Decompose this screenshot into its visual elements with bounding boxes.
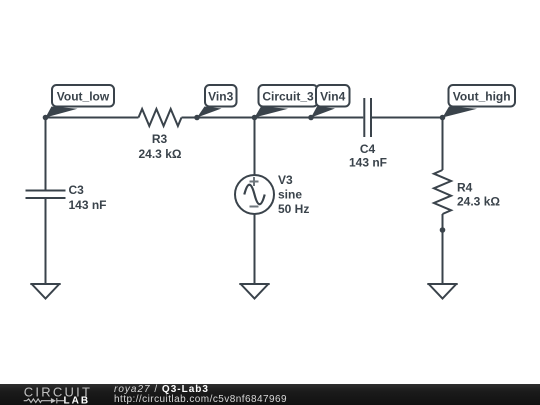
node Vout_low flag — [46, 85, 115, 118]
node dot Circuit_3 — [252, 115, 258, 121]
svg-text:Vout_high: Vout_high — [453, 90, 511, 104]
node Vin3 flag — [197, 85, 237, 118]
footer url text — [114, 395, 287, 405]
resistor R4 — [434, 170, 451, 214]
label V3 value — [278, 173, 309, 216]
junction dot below R4 — [440, 227, 446, 233]
node Vout_high flag — [443, 85, 516, 118]
node dot Vout_low — [43, 115, 49, 121]
svg-text:Vin3: Vin3 — [208, 90, 233, 104]
svg-text:V3: V3 — [278, 173, 293, 187]
wire: main horizontal net segment Vout_low to R3 — [46, 117, 139, 119]
wire: left vertical Vout_low to C3 — [45, 118, 47, 191]
node Vin4 flag — [311, 85, 350, 118]
svg-text:Vin4: Vin4 — [320, 90, 345, 104]
ground (middle) — [239, 284, 269, 299]
CircuitLab logo — [0, 384, 100, 405]
svg-text:24.3 kΩ: 24.3 kΩ — [457, 195, 500, 209]
svg-text:C4: C4 — [360, 142, 376, 156]
label C3 value — [69, 183, 107, 212]
svg-text:50 Hz: 50 Hz — [278, 202, 309, 216]
svg-text:R4: R4 — [457, 181, 473, 195]
node dot Vout_high — [440, 115, 446, 121]
ground (left) — [30, 284, 60, 299]
capacitor C3 — [26, 191, 66, 199]
svg-text:Vout_low: Vout_low — [57, 90, 110, 104]
wire: Circuit_3 node down to V3 — [254, 118, 256, 176]
capacitor C4 — [364, 98, 371, 137]
svg-text:24.3 kΩ: 24.3 kΩ — [139, 147, 182, 161]
footer title text — [114, 385, 209, 395]
svg-text:C3: C3 — [69, 183, 85, 197]
svg-text:sine: sine — [278, 188, 302, 202]
label R4 value — [457, 181, 500, 209]
svg-text:Circuit_3: Circuit_3 — [262, 90, 314, 104]
label C4 value — [349, 142, 387, 170]
voltage source V3 — [235, 175, 274, 214]
node dot Vin4 — [308, 115, 314, 121]
footer bar — [0, 384, 540, 405]
svg-text:R3: R3 — [152, 132, 168, 146]
resistor R3 — [139, 109, 182, 126]
wire: C4 to Vout_high node — [372, 117, 443, 119]
wire: V3 to middle ground — [254, 214, 256, 283]
ground (right) — [427, 284, 457, 299]
wire: R4 to right ground — [442, 214, 444, 283]
label R3 value — [139, 132, 182, 161]
wire: Vout_high node down to R4 — [442, 118, 444, 171]
svg-text:143 nF: 143 nF — [69, 198, 107, 212]
svg-text:LAB: LAB — [64, 396, 91, 405]
node dot Vin3 — [194, 115, 200, 121]
node Circuit_3 flag — [255, 85, 318, 118]
wire: R3 to C4 (through Vin3, Circuit_3, Vin4 nodes) — [182, 117, 364, 119]
svg-text:143 nF: 143 nF — [349, 156, 387, 170]
wire: C3 to left ground — [45, 198, 47, 283]
